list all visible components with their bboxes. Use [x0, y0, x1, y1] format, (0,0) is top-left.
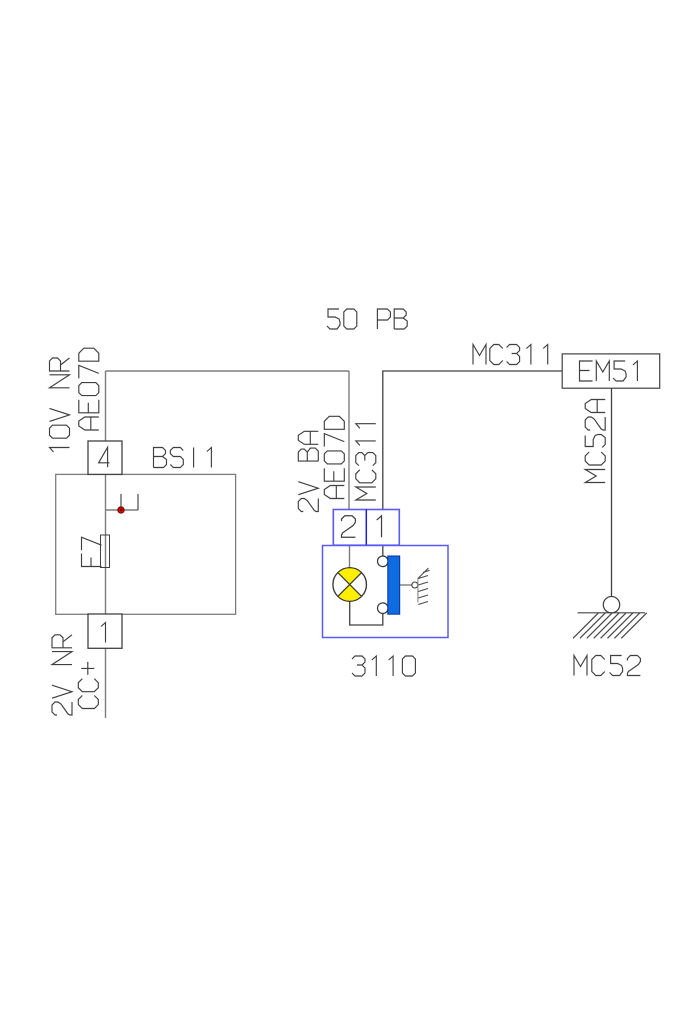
wire: pivot link: [400, 584, 412, 586]
wire label "2V NR": [52, 635, 72, 715]
lamp unit 3110 box: [323, 546, 449, 638]
pivot anchor wall: [418, 568, 430, 605]
wire label "MC52A": [585, 400, 605, 483]
BSI1 unit box: [56, 474, 236, 614]
pin number 1 (BSI1): [101, 623, 106, 643]
wire: EM51 to ground MC52: [611, 388, 613, 596]
wire: BSI1 pin 4 riser: [105, 371, 107, 441]
wire: pin 2 to lamp top: [349, 545, 351, 568]
junction red dot: [118, 507, 124, 513]
pivot circle: [412, 582, 418, 588]
lamp symbol: [333, 568, 367, 602]
connector housing pins 2/1: [333, 510, 399, 546]
label "BSI1": [154, 448, 212, 468]
wire: lamp bottom to switch bottom: [350, 602, 383, 626]
wire label "MC311" (vertical): [356, 424, 376, 500]
fuse label "F7": [82, 537, 102, 566]
label "MC52": [574, 656, 640, 676]
switch contact top: [378, 556, 389, 567]
BSI1 pin 1 box: [88, 614, 122, 648]
fuse F7 body: [101, 535, 110, 568]
wire label "CC+": [78, 662, 98, 709]
label "EM51": [580, 361, 638, 381]
BSI1 pin 4 box: [88, 441, 122, 474]
wire label "AE07D" (left): [79, 348, 99, 430]
connector divider: [365, 510, 367, 546]
pin number 1 (connector): [377, 516, 382, 537]
wire: internal tap to switch: [106, 509, 139, 511]
wire: pin 1 to switch contact: [382, 545, 384, 556]
label "50 PB": [327, 309, 407, 329]
ground hatching MC52: [573, 613, 647, 639]
label "MC311" (top): [473, 345, 548, 365]
wire label "10V NR": [50, 358, 70, 452]
wire: lamp pin 1 riser MC311: [383, 371, 562, 510]
EM51 box: [562, 354, 660, 388]
wire: drop to lamp pin 2: [348, 371, 350, 510]
pin number 2 (connector): [342, 516, 356, 537]
wire: inside BSI1 through fuse: [105, 474, 107, 614]
label "3110": [352, 656, 415, 676]
switch slider bar: [388, 556, 400, 614]
pin number 4: [99, 447, 110, 467]
ground terminal circle: [603, 597, 619, 613]
wire: below BSI1 pin 1 (CC+): [105, 648, 107, 718]
BSI1 switch prong left: [120, 494, 122, 510]
wire label "AE07D" (middle): [324, 416, 344, 498]
switch contact bottom: [378, 603, 389, 614]
wire label "2V BA": [298, 431, 318, 511]
BSI1 switch prong right: [137, 494, 139, 510]
wire: +feed horizontal 50 PB: [106, 370, 350, 372]
